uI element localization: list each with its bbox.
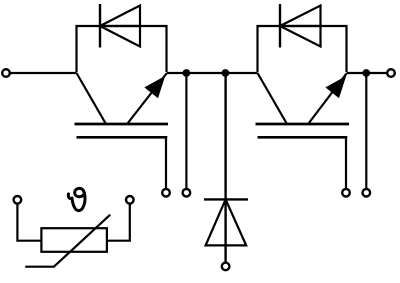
diode D2 cathode bar <box>279 4 281 48</box>
wire gate T1 <box>165 139 167 189</box>
wire thermistor left <box>17 204 41 241</box>
diode D3 triangle <box>206 199 247 245</box>
IGBT T1 channel bar <box>75 123 169 126</box>
terminal 1 (left collector terminal) <box>2 69 10 77</box>
wire auxiliary emitter T2 <box>365 73 367 189</box>
wire auxiliary emitter T1 <box>185 73 187 189</box>
node D3 junction dot <box>222 69 230 77</box>
IGBT T2 emitter diagonal <box>309 74 347 124</box>
diode D1 loop wire (anti-parallel over T1) <box>77 26 167 72</box>
wire gate T2 <box>345 139 347 189</box>
diode D1 cathode bar <box>99 4 101 48</box>
label theta (temperature) <box>68 188 85 210</box>
wire emitter T2 to terminal 2 <box>347 72 388 74</box>
wire collector T1 <box>10 72 77 74</box>
thermistor R1 body <box>41 228 107 252</box>
thermistor R1 strike line <box>25 215 110 267</box>
IGBT T2 gate bar <box>258 136 348 139</box>
IGBT T1 collector diagonal <box>77 73 106 124</box>
wire thermistor right <box>107 204 130 241</box>
IGBT T1 emitter diagonal <box>128 74 167 124</box>
IGBT T1 gate bar <box>77 136 168 139</box>
wire main line E1-C2 <box>167 72 258 74</box>
terminal thermistor left <box>14 196 22 204</box>
node E2 junction dot <box>362 69 370 77</box>
terminal gate T1 <box>162 189 170 197</box>
diode D1 triangle <box>100 6 140 47</box>
terminal auxiliary emitter T1 <box>183 189 191 197</box>
node E1 junction dot <box>183 69 191 77</box>
diode D1 horizontal through-line <box>100 25 140 27</box>
terminal 2 (right emitter terminal) <box>387 69 395 77</box>
terminal auxiliary emitter T2 <box>363 189 371 197</box>
diode D2 loop wire (anti-parallel over T2) <box>258 26 347 72</box>
terminal thermistor right <box>126 196 134 204</box>
IGBT T1 emitter arrowhead <box>144 76 165 98</box>
diode D2 triangle <box>280 6 321 47</box>
IGBT T2 emitter arrowhead <box>325 76 346 98</box>
IGBT T2 channel bar <box>256 123 350 126</box>
IGBT T2 collector diagonal <box>258 73 287 124</box>
diode D2 horizontal through-line <box>280 25 321 27</box>
diode D3 cathode bar <box>204 198 248 200</box>
terminal 3 (diode D3 anode terminal) <box>222 263 230 271</box>
terminal gate T2 <box>342 189 350 197</box>
wire anode riser D3 <box>224 73 226 262</box>
